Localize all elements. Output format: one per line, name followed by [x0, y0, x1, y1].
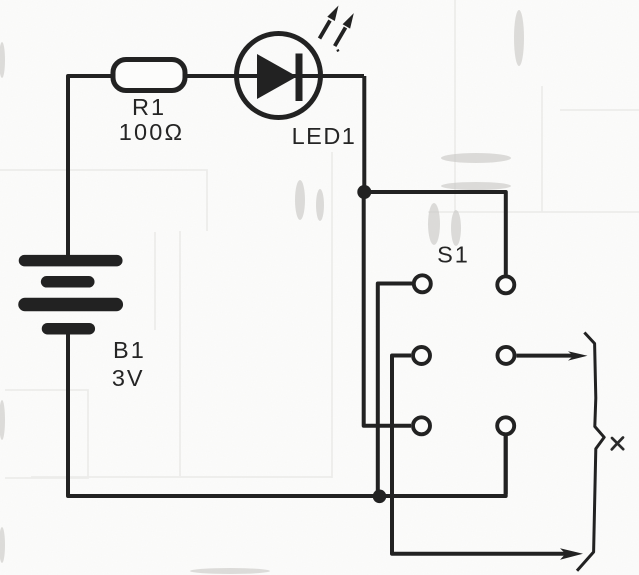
- svg-text:B1: B1: [113, 337, 146, 363]
- battery B1 plate 3 long: [25, 298, 116, 312]
- LED light arrow 1: [320, 6, 339, 39]
- wire: node A down and right to S1 terminal 5: [364, 192, 411, 426]
- resistor R1 body: [113, 60, 185, 91]
- switch S1 terminal 5: [413, 417, 430, 434]
- LED light arrow 2: [335, 13, 354, 51]
- wire: node A right and down to S1 terminal 2: [364, 192, 506, 275]
- wire: S1 terminal 1 left and down to node B: [378, 284, 412, 497]
- wire: S1 terminal 3 left, down, right to bottom output arrow: [392, 356, 574, 554]
- LED LED1 anode triangle: [257, 54, 297, 99]
- wire: battery + up and right to R1 and LED anode: [68, 76, 364, 256]
- wire: S1 terminal 4 right to middle output arrow: [517, 354, 575, 358]
- switch S1 terminal 3: [413, 347, 430, 364]
- svg-text:R1: R1: [132, 94, 166, 120]
- arrowhead: middle output: [568, 351, 588, 360]
- wire: S1 terminal 6 down to bottom wire: [504, 436, 508, 494]
- node A junction dot: [357, 185, 371, 199]
- output X label: [612, 438, 623, 450]
- wire: LED cathode down to node A: [362, 76, 366, 192]
- svg-text:3V: 3V: [112, 365, 145, 391]
- svg-text:S1: S1: [437, 242, 470, 268]
- LED LED1 circle: [237, 34, 321, 118]
- LED LED1 cathode bar: [296, 54, 303, 102]
- switch S1 terminal 2: [497, 276, 514, 293]
- switch S1 terminal 4: [498, 347, 515, 364]
- svg-text:100Ω: 100Ω: [119, 119, 185, 145]
- node B junction dot: [373, 490, 387, 504]
- battery B1 plate 4 short: [48, 323, 90, 335]
- switch S1 terminal 6: [497, 417, 514, 434]
- wire: battery - down, across bottom, up to S1 terminal 6: [68, 330, 506, 496]
- svg-text:LED1: LED1: [292, 123, 357, 149]
- battery B1 plate 2 short: [47, 276, 89, 288]
- switch S1 terminal 1: [414, 275, 431, 292]
- arrowhead: bottom output: [560, 548, 583, 560]
- brace for output X: [577, 333, 604, 571]
- battery B1 plate 1 long: [25, 255, 117, 267]
